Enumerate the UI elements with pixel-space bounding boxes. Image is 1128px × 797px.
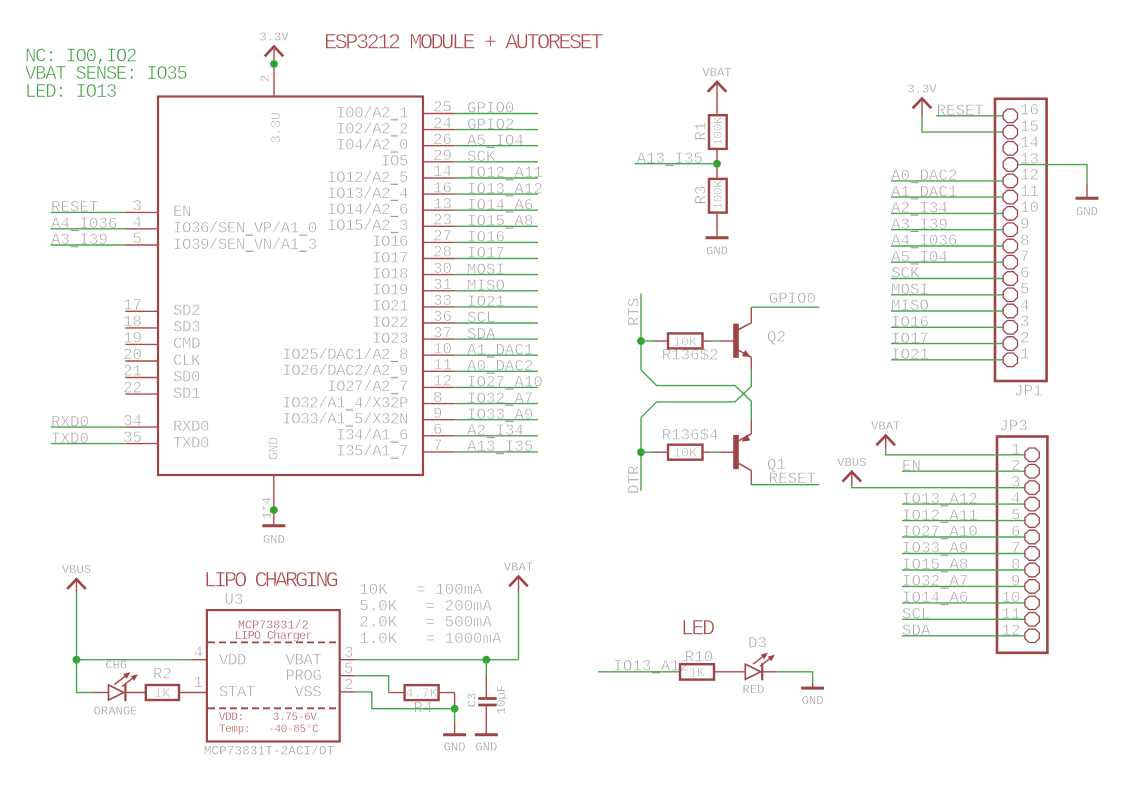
svg-text:3.3V: 3.3V bbox=[259, 31, 289, 45]
svg-text:GND: GND bbox=[475, 740, 497, 754]
svg-text:VDD:: VDD: bbox=[219, 712, 244, 724]
svg-text:LED: IO13: LED: IO13 bbox=[25, 81, 117, 103]
svg-text:IO33_A9: IO33_A9 bbox=[902, 540, 968, 558]
svg-text:SD0: SD0 bbox=[173, 368, 200, 386]
svg-text:A1_DAC1: A1_DAC1 bbox=[891, 183, 957, 201]
svg-text:D3: D3 bbox=[748, 635, 767, 653]
svg-text:SD1: SD1 bbox=[173, 385, 200, 403]
svg-text:10: 10 bbox=[1020, 199, 1039, 217]
svg-text:9: 9 bbox=[1011, 572, 1020, 590]
svg-text:A5_I04: A5_I04 bbox=[891, 248, 948, 266]
svg-text:RXD0: RXD0 bbox=[51, 413, 89, 431]
svg-text:R2: R2 bbox=[153, 666, 172, 684]
svg-text:3: 3 bbox=[1011, 474, 1020, 492]
svg-text:12: 12 bbox=[1002, 622, 1021, 640]
svg-text:1K: 1K bbox=[689, 665, 705, 680]
svg-text:Q2: Q2 bbox=[767, 329, 786, 347]
svg-text:A3_I39: A3_I39 bbox=[891, 216, 948, 234]
svg-text:IO27_A10: IO27_A10 bbox=[902, 523, 978, 541]
svg-text:EN: EN bbox=[173, 203, 191, 221]
svg-text:SCL: SCL bbox=[902, 606, 930, 624]
svg-text:13: 13 bbox=[1020, 150, 1039, 168]
svg-text:10K: 10K bbox=[673, 446, 697, 461]
svg-text:6: 6 bbox=[1011, 523, 1020, 541]
svg-text:1: 1 bbox=[1020, 346, 1029, 364]
svg-text:VBUS: VBUS bbox=[837, 456, 866, 470]
svg-text:IO16: IO16 bbox=[891, 314, 929, 332]
svg-text:11: 11 bbox=[1020, 183, 1039, 201]
svg-text:Temp:: Temp: bbox=[219, 724, 250, 736]
svg-text:GND: GND bbox=[444, 740, 466, 754]
svg-text:IO15_A8: IO15_A8 bbox=[902, 556, 968, 574]
svg-text:GPIO0: GPIO0 bbox=[769, 290, 816, 308]
svg-text:IO13_A12: IO13_A12 bbox=[613, 657, 689, 675]
svg-text:ESP3212 MODULE + AUTORESET: ESP3212 MODULE + AUTORESET bbox=[324, 31, 603, 56]
svg-text:100K: 100K bbox=[711, 180, 726, 210]
svg-text:10µF: 10µF bbox=[495, 685, 509, 714]
svg-text:IO12_A11: IO12_A11 bbox=[902, 507, 978, 525]
svg-text:A2_I34: A2_I34 bbox=[891, 200, 948, 218]
svg-text:8: 8 bbox=[1011, 556, 1020, 574]
svg-text:ORANGE: ORANGE bbox=[94, 705, 138, 719]
svg-text:C3: C3 bbox=[466, 693, 480, 708]
svg-text:LIPO Charger: LIPO Charger bbox=[235, 629, 313, 643]
svg-text:VBAT: VBAT bbox=[871, 420, 900, 434]
svg-text:CMD: CMD bbox=[173, 335, 200, 353]
svg-text:100K: 100K bbox=[711, 116, 726, 146]
svg-text:4: 4 bbox=[1011, 490, 1020, 508]
svg-text:GND: GND bbox=[706, 244, 728, 258]
svg-text:3.3U: 3.3U bbox=[270, 112, 285, 143]
svg-text:IO13_A12: IO13_A12 bbox=[902, 490, 978, 508]
svg-text:IO21: IO21 bbox=[891, 346, 929, 364]
svg-text:SD3: SD3 bbox=[173, 319, 200, 337]
svg-text:3: 3 bbox=[1020, 313, 1029, 331]
svg-text:U3: U3 bbox=[224, 591, 243, 609]
svg-text:VBAT: VBAT bbox=[702, 66, 731, 80]
svg-text:IO39/SEN_VN/A1_3: IO39/SEN_VN/A1_3 bbox=[173, 236, 317, 254]
svg-text:1: 1 bbox=[194, 674, 203, 692]
svg-text:GND: GND bbox=[1076, 205, 1098, 219]
svg-text:-40-85°C: -40-85°C bbox=[268, 724, 319, 736]
svg-text:LIPO CHARGING: LIPO CHARGING bbox=[204, 568, 338, 593]
svg-text:EN: EN bbox=[902, 457, 921, 475]
svg-text:TXD0: TXD0 bbox=[173, 434, 209, 452]
svg-text:6: 6 bbox=[1020, 264, 1029, 282]
svg-text:A3_I39: A3_I39 bbox=[51, 231, 108, 249]
svg-text:IO14_A6: IO14_A6 bbox=[902, 589, 968, 607]
svg-text:CHG: CHG bbox=[105, 659, 127, 673]
svg-text:GND: GND bbox=[802, 694, 824, 708]
svg-text:2: 2 bbox=[259, 75, 273, 82]
svg-text:10: 10 bbox=[1002, 589, 1021, 607]
svg-text:SD2: SD2 bbox=[173, 302, 200, 320]
svg-text:IO32_A7: IO32_A7 bbox=[902, 573, 968, 591]
svg-text:VDD: VDD bbox=[219, 652, 246, 670]
svg-text:RESET: RESET bbox=[51, 199, 98, 217]
svg-text:1: 1 bbox=[1011, 441, 1020, 459]
svg-text:2: 2 bbox=[1011, 457, 1020, 475]
svg-text:RED: RED bbox=[743, 683, 765, 697]
svg-text:JP3: JP3 bbox=[999, 418, 1027, 436]
svg-text:CLK: CLK bbox=[173, 352, 201, 370]
svg-text:16: 16 bbox=[1020, 102, 1039, 120]
svg-text:3.75-6V: 3.75-6V bbox=[273, 712, 318, 724]
svg-text:GND: GND bbox=[268, 437, 283, 460]
svg-text:9: 9 bbox=[1020, 216, 1029, 234]
svg-text:R136$4: R136$4 bbox=[662, 427, 719, 445]
svg-text:RESET: RESET bbox=[937, 102, 984, 120]
svg-text:PROG: PROG bbox=[285, 667, 321, 685]
svg-text:GND: GND bbox=[263, 533, 285, 547]
svg-text:3.3V: 3.3V bbox=[907, 83, 937, 97]
svg-text:SCK: SCK bbox=[891, 265, 920, 283]
svg-text:MCP73831T-2ACI/OT: MCP73831T-2ACI/OT bbox=[204, 743, 335, 758]
svg-text:4: 4 bbox=[1020, 297, 1029, 315]
svg-text:VSS: VSS bbox=[294, 684, 321, 702]
svg-text:1K: 1K bbox=[154, 686, 170, 701]
svg-text:1.0K = 1000mA: 1.0K = 1000mA bbox=[359, 630, 502, 648]
svg-text:LED: LED bbox=[681, 616, 715, 641]
svg-text:SDA: SDA bbox=[902, 622, 931, 640]
svg-text:VBAT: VBAT bbox=[504, 561, 533, 575]
svg-text:7: 7 bbox=[1011, 540, 1020, 558]
svg-text:MISO: MISO bbox=[891, 297, 929, 315]
svg-text:VBUS: VBUS bbox=[62, 563, 91, 577]
svg-text:JP1: JP1 bbox=[1014, 383, 1042, 401]
svg-text:STAT: STAT bbox=[219, 684, 255, 702]
svg-text:11: 11 bbox=[1002, 605, 1021, 623]
svg-text:14: 14 bbox=[1020, 134, 1039, 152]
svg-text:TXD0: TXD0 bbox=[51, 430, 89, 448]
svg-text:7: 7 bbox=[1020, 248, 1029, 266]
svg-text:RXD0: RXD0 bbox=[173, 418, 209, 436]
svg-text:5: 5 bbox=[1011, 507, 1020, 525]
